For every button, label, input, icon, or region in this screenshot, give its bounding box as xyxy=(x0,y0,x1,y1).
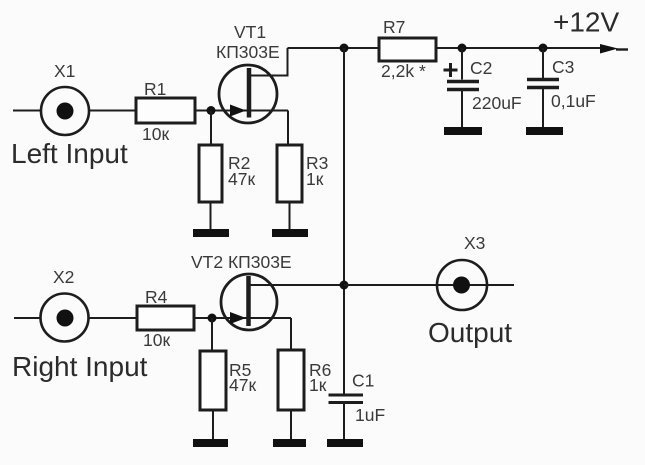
resistor R3 xyxy=(277,145,302,202)
svg-text:Output: Output xyxy=(428,317,512,348)
ground (R2) xyxy=(193,229,229,237)
wire R6 to ground xyxy=(290,410,292,439)
wire VT2 source down to R6 xyxy=(290,318,292,350)
resistor R1 xyxy=(136,98,195,123)
ground (C1) xyxy=(327,439,363,447)
svg-text:C1: C1 xyxy=(352,371,374,391)
svg-text:R4: R4 xyxy=(145,287,168,307)
wire C2 bottom xyxy=(461,91,463,127)
svg-text:R7: R7 xyxy=(383,17,405,37)
ground (C2) xyxy=(444,127,482,135)
wire R3 to ground xyxy=(289,202,291,229)
connector X3 xyxy=(437,260,487,310)
connector X1 xyxy=(41,87,89,135)
svg-text:10к: 10к xyxy=(142,124,169,144)
resistor R4 xyxy=(137,306,194,330)
wire R2 to ground xyxy=(210,202,212,229)
ground (R6) xyxy=(273,439,306,447)
ground (R3) xyxy=(272,229,308,237)
capacitor C2 xyxy=(444,63,480,90)
node B (gate VT2 junction) xyxy=(208,314,217,323)
svg-text:Left Input: Left Input xyxy=(11,138,128,169)
wire left stub of X1 xyxy=(13,110,41,112)
resistor R7 xyxy=(379,38,436,61)
svg-text:1к: 1к xyxy=(306,169,324,189)
+12V arrow xyxy=(600,44,628,54)
svg-text:2,2k *: 2,2k * xyxy=(381,61,426,81)
transistor VT1 xyxy=(219,65,277,123)
wire X2 to R4 xyxy=(89,317,138,319)
wire +12V rail xyxy=(288,47,613,49)
node rail-bus junction xyxy=(340,44,349,53)
svg-text:Right Input: Right Input xyxy=(12,351,148,382)
capacitor C3 xyxy=(527,80,559,88)
connector X2 xyxy=(41,294,89,342)
ground (R5) xyxy=(193,439,228,447)
svg-text:X3: X3 xyxy=(464,233,485,253)
svg-text:VT2 КП303Е: VT2 КП303Е xyxy=(191,252,292,272)
wire C3 bottom xyxy=(542,89,544,127)
wire node A down to R2 xyxy=(210,111,212,146)
svg-text:C2: C2 xyxy=(470,58,492,78)
svg-text:47к: 47к xyxy=(228,169,255,189)
svg-text:1uF: 1uF xyxy=(355,405,385,425)
node rail-C2 junction xyxy=(458,44,467,53)
wire drain bus vertical xyxy=(343,48,345,394)
svg-text:X2: X2 xyxy=(53,267,74,287)
svg-text:КП303Е: КП303Е xyxy=(216,42,280,62)
node rail-C3 junction xyxy=(539,44,548,53)
wire C1 bottom xyxy=(343,404,345,439)
ground (C3) xyxy=(526,127,563,135)
node A (gate VT1 junction) xyxy=(207,106,216,115)
svg-text:X1: X1 xyxy=(54,61,75,81)
svg-text:220uF: 220uF xyxy=(472,93,522,113)
capacitor C1 xyxy=(329,395,364,403)
wire X1 to R1 xyxy=(89,110,136,112)
svg-text:1к: 1к xyxy=(309,375,327,395)
wire C3 top xyxy=(542,48,544,78)
resistor R6 xyxy=(278,350,304,410)
resistor R5 xyxy=(200,351,226,410)
wire R4 to VT2 gate xyxy=(194,317,291,319)
resistor R2 xyxy=(199,145,222,202)
svg-text:R1: R1 xyxy=(144,79,166,99)
node bus-drain-output junction xyxy=(340,281,349,290)
wire VT1 drain to +12V rail xyxy=(249,48,288,76)
svg-text:47к: 47к xyxy=(229,375,256,395)
wire R5 to ground xyxy=(212,410,214,439)
wire VT1 source down to R3 xyxy=(287,111,289,146)
wire C2 top xyxy=(461,48,463,80)
svg-text:10к: 10к xyxy=(143,330,170,350)
wire VT2 drain to bus xyxy=(249,284,344,286)
wire output line xyxy=(344,284,514,286)
svg-text:0,1uF: 0,1uF xyxy=(551,91,596,111)
wire left stub of X2 xyxy=(14,317,41,319)
wire node B down to R5 xyxy=(211,318,213,351)
wire R1 to VT1 gate xyxy=(195,110,288,112)
svg-text:+12V: +12V xyxy=(553,7,619,38)
svg-text:VT1: VT1 xyxy=(234,22,266,42)
svg-text:C3: C3 xyxy=(552,57,574,77)
transistor VT2 xyxy=(221,274,277,330)
